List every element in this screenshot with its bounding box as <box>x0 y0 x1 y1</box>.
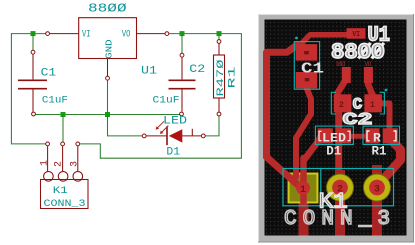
capacitor C1 <box>18 54 47 112</box>
svg-text:88ØØ: 88ØØ <box>331 40 385 65</box>
node K1 pin2 circle <box>61 142 65 146</box>
node junction VO-R1 <box>217 31 222 36</box>
svg-text:LED: LED <box>163 115 187 127</box>
svg-text:1: 1 <box>370 101 375 110</box>
wire U1 gnd branch <box>107 80 109 114</box>
connector K1 footprint outline <box>283 169 394 206</box>
regulator U1 box <box>79 18 137 59</box>
pad centers K1 <box>296 180 385 196</box>
svg-text:K1: K1 <box>53 185 68 197</box>
capacitor C1 footprint <box>294 37 319 90</box>
node junction VO-C2 <box>180 31 185 36</box>
wire net GND bottom rail <box>36 114 180 116</box>
resistor R1 <box>214 44 225 112</box>
wire U1 GND pin <box>107 59 109 77</box>
wire trace U1 GND to C2 <box>338 74 346 93</box>
svg-text:VI: VI <box>82 29 91 40</box>
wire R1 top branch <box>218 34 220 40</box>
svg-text:CONN_3: CONN_3 <box>44 199 86 210</box>
svg-text:C2: C2 <box>343 111 373 130</box>
node R1 bottom pin circle <box>217 112 221 116</box>
wire trace pad3 stub <box>372 165 382 236</box>
svg-text:C1uF: C1uF <box>153 96 180 107</box>
wire pin2 branch <box>62 115 64 142</box>
svg-text:GND: GND <box>104 39 115 59</box>
node U1 GND pin circle <box>106 76 110 80</box>
svg-text:VI: VI <box>352 31 360 39</box>
wire net VI top rail <box>11 34 45 144</box>
svg-text:R1: R1 <box>226 67 238 89</box>
svg-text:R1: R1 <box>372 144 387 159</box>
pad 3 K1 ring <box>363 174 391 202</box>
wire R1 bottom to LED anode <box>205 116 219 136</box>
wire trace C2 to R1 right pad <box>380 104 390 133</box>
node U1 VO pin circle <box>165 32 169 36</box>
node K1 pin3 circle <box>76 142 80 146</box>
node C1 bottom pin circle <box>32 112 36 116</box>
pad 2 K1 ring <box>326 174 354 202</box>
svg-text:C1: C1 <box>41 67 57 79</box>
svg-text:3: 3 <box>70 161 81 167</box>
node junction VI-C1 <box>31 31 36 36</box>
wire C2 top branch <box>181 34 183 54</box>
connector K1 <box>41 146 89 208</box>
wire trace U1 VO to C2 <box>368 74 373 95</box>
wire U1 VO pin <box>137 33 165 35</box>
node C2 bottom pin circle <box>180 112 184 116</box>
LED D1 <box>146 121 201 145</box>
wire trace GND vertical to pad2 <box>335 108 342 185</box>
svg-text:R47Ø: R47Ø <box>215 60 227 97</box>
svg-text:88ØØ: 88ØØ <box>88 2 127 16</box>
svg-text:VO: VO <box>122 29 130 40</box>
wire trace LED left pad to pad1 <box>304 134 322 160</box>
node LED right pin circle <box>201 134 205 138</box>
wire trace VI net left <box>267 45 298 157</box>
node LED left pin circle <box>142 134 146 138</box>
svg-text:2: 2 <box>339 101 344 110</box>
node C2 top pin circle <box>180 53 184 57</box>
regulator U1 footprint pcb <box>342 28 373 83</box>
capacitor C2 footprint <box>331 89 387 114</box>
wire trace C1 bottom to pad1 <box>296 84 311 146</box>
wire trace VI pad to U1 <box>301 35 350 44</box>
wire trace over pad1 diag <box>267 157 304 190</box>
wire trace over pad1 vertical <box>300 158 307 204</box>
node U1 VI pin circle <box>46 32 50 36</box>
wire net VO rail <box>80 34 241 159</box>
LED D1 footprint <box>315 126 353 144</box>
svg-text:C1uF: C1uF <box>42 96 68 107</box>
PCB board background <box>265 20 407 236</box>
svg-text:1: 1 <box>39 160 50 166</box>
capacitor C2 <box>169 57 196 111</box>
node K1 pin1 circle <box>46 142 50 146</box>
svg-text:C2: C2 <box>189 64 205 76</box>
pad 1 K1 square <box>288 173 319 204</box>
wire U1 VI pin <box>50 33 79 35</box>
svg-text:D1: D1 <box>326 144 341 159</box>
wire trace R right pad to pad3 via right edge <box>379 139 401 184</box>
wire trace over pad1 from C1 <box>293 140 299 177</box>
PCB panel frame <box>258 14 414 243</box>
svg-text:2: 2 <box>54 161 65 167</box>
svg-text:C1: C1 <box>301 61 324 78</box>
svg-text:3: 3 <box>374 185 380 196</box>
wire trace LED to R <box>349 134 367 139</box>
wire trace pad1 stub <box>299 188 309 236</box>
wire trace pad2 stub <box>335 170 345 236</box>
node R1 top pin circle <box>217 40 221 44</box>
resistor R1 footprint <box>363 126 400 144</box>
svg-text:1: 1 <box>300 185 306 196</box>
value label LED pcb <box>319 131 322 140</box>
svg-text:U1: U1 <box>141 66 157 78</box>
wire C1 top branch <box>32 34 34 51</box>
node C1 top pin circle <box>31 50 35 54</box>
svg-text:D1: D1 <box>166 147 180 159</box>
wire GND to LED cathode <box>108 115 143 136</box>
node junction GND-pin2 <box>61 112 66 117</box>
node junction GND-U1 <box>105 112 110 117</box>
